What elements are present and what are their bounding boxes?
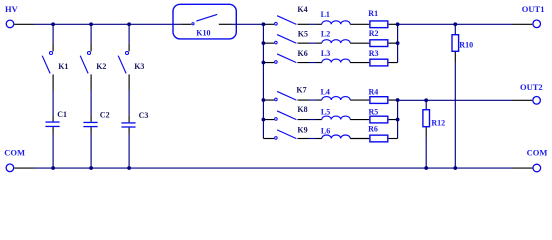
svg-text:L2: L2 (321, 29, 330, 38)
svg-text:R1: R1 (368, 9, 378, 18)
svg-text:K6: K6 (298, 49, 308, 58)
inductor L1 (317, 21, 370, 25)
pin COM left terminal (14, 167, 34, 169)
relay K10 body (173, 4, 236, 39)
wire OUT2 rail (398, 99, 513, 101)
resistor R5 (370, 116, 398, 123)
switch K10 (181, 14, 231, 24)
svg-text:L5: L5 (321, 107, 330, 116)
svg-text:K2: K2 (96, 62, 106, 71)
wire top rail left (35, 23, 182, 25)
svg-text:COM: COM (527, 148, 548, 158)
switch K2 (80, 24, 91, 90)
wire K7 to L4 (309, 99, 317, 101)
terminal OUT1 (533, 20, 541, 28)
wire K1 to C1 (52, 91, 54, 116)
svg-text:R10: R10 (459, 41, 473, 50)
svg-text:C3: C3 (139, 111, 149, 120)
terminal COM right (533, 164, 541, 172)
junction dot R12 tap (424, 98, 428, 102)
wire C2 to bottom rail (90, 134, 92, 168)
svg-text:L6: L6 (321, 126, 330, 135)
switch K7 (263, 91, 309, 100)
resistor R2 (370, 40, 398, 47)
terminal HV (6, 20, 14, 28)
svg-text:R12: R12 (431, 118, 445, 127)
switch K8 (263, 111, 309, 120)
junction dots left bus (262, 41, 266, 121)
resistor R3 (370, 59, 398, 66)
svg-text:OUT2: OUT2 (520, 82, 543, 92)
switch K1 (42, 24, 53, 90)
svg-text:C1: C1 (57, 110, 67, 119)
wire K3 to C3 (128, 91, 130, 116)
capacitor C3 (121, 115, 135, 133)
wire K9 to L6 (309, 138, 317, 140)
svg-text:K7: K7 (296, 85, 306, 94)
svg-text:R2: R2 (369, 29, 379, 38)
svg-text:HV: HV (5, 4, 19, 14)
wire OUT1 rail (398, 23, 513, 25)
svg-text:OUT1: OUT1 (522, 4, 545, 14)
wire bottom rail (35, 167, 514, 169)
pin OUT2 terminal (513, 99, 533, 101)
resistor R6 (370, 135, 398, 142)
terminal OUT2 (533, 97, 541, 105)
svg-text:K9: K9 (297, 125, 307, 134)
svg-text:R4: R4 (369, 87, 379, 96)
svg-text:K5: K5 (298, 29, 308, 38)
svg-text:K10: K10 (196, 28, 210, 37)
junction dots top rail (51, 22, 457, 26)
junction dots merge buses (396, 41, 400, 121)
wire K5 to L2 (309, 42, 317, 44)
svg-text:K1: K1 (58, 62, 68, 71)
resistor R10 (452, 24, 459, 62)
wire K8 to L5 (309, 119, 317, 121)
resistor R12 (423, 100, 430, 137)
wire K4 to L1 (309, 23, 317, 25)
pin OUT1 terminal (513, 23, 533, 25)
svg-text:L3: L3 (321, 49, 330, 58)
svg-text:R6: R6 (368, 124, 378, 133)
switch K9 (263, 130, 309, 139)
wire C1 to bottom rail (52, 134, 54, 168)
wire R12 to bottom rail (425, 137, 427, 168)
svg-text:L4: L4 (321, 87, 330, 96)
svg-text:K8: K8 (297, 105, 307, 114)
wire K10 to bus (231, 23, 263, 25)
switch K5 (263, 35, 309, 44)
svg-text:R3: R3 (369, 49, 379, 58)
pin HV terminal (14, 23, 34, 25)
terminal COM left (6, 164, 14, 172)
inductor L4 (317, 97, 370, 101)
svg-text:C2: C2 (100, 110, 110, 119)
switch K6 (263, 54, 309, 63)
svg-text:L1: L1 (321, 10, 330, 19)
capacitor C1 (45, 115, 59, 133)
wire C3 to bottom rail (128, 134, 130, 168)
svg-text:COM: COM (4, 148, 25, 158)
svg-text:R5: R5 (369, 107, 379, 116)
wire lower merge bus (397, 100, 399, 138)
inductor L2 (317, 40, 370, 44)
wire R10 to bottom rail (454, 62, 456, 168)
wire left distribution bus (262, 24, 264, 138)
inductor L6 (317, 135, 370, 139)
capacitor C2 (83, 115, 97, 133)
wire upper merge bus (397, 24, 399, 62)
switch K3 (118, 24, 129, 90)
pin COM right terminal (513, 167, 533, 169)
inductor L3 (317, 59, 370, 63)
switch K4 (263, 16, 309, 25)
inductor L5 (317, 116, 370, 120)
junction dots bottom rail (51, 166, 457, 170)
wire K2 to C2 (90, 91, 92, 116)
svg-text:K4: K4 (297, 5, 307, 14)
svg-text:K3: K3 (134, 62, 144, 71)
resistor R1 (370, 21, 398, 28)
resistor R4 (370, 97, 398, 104)
wire K6 to L3 (309, 62, 317, 64)
